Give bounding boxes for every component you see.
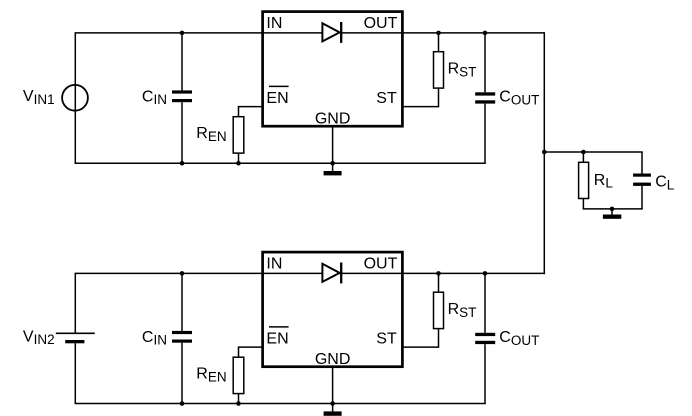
wire: RST bottom to ST pin: [402, 89, 439, 107]
label RL: [594, 172, 614, 191]
label CIN (top circuit): [142, 88, 167, 107]
resistor RST (top circuit): [434, 52, 444, 88]
wire: VIN2 left vertical bottom branch: [74, 343, 76, 403]
label RST (top circuit): [448, 61, 477, 80]
pin label IN (U2): [266, 256, 282, 273]
pin label EN (U2): [266, 330, 288, 347]
label CIN (bottom circuit): [142, 329, 167, 348]
node: RST top junction (bottom circuit): [436, 271, 441, 276]
node: CIN bottom junction: [180, 161, 185, 166]
svg-text:EN: EN: [266, 90, 288, 107]
pin label OUT (U2): [364, 256, 398, 273]
pin label EN (U1): [266, 90, 288, 107]
pin label OUT (U1): [364, 15, 398, 32]
capacitor CIN (bottom circuit): [172, 273, 192, 403]
ground symbol (bottom circuit): [324, 404, 342, 416]
wire: REN bottom to ground rail (bottom circuit): [238, 394, 240, 404]
svg-text:EN: EN: [266, 330, 288, 347]
diode D1 inside U1: [322, 22, 341, 43]
pin label GND (U1): [315, 111, 351, 128]
resistor REN (top circuit): [233, 117, 244, 153]
node: load tap junction: [542, 150, 547, 155]
label VIN2: [23, 328, 55, 347]
capacitor COUT (bottom circuit): [475, 273, 495, 403]
pin label IN (U1): [266, 15, 282, 32]
battery VIN2: [56, 333, 95, 343]
node: CIN bottom junction (bottom circuit): [180, 401, 185, 406]
svg-text:GND: GND: [315, 351, 351, 368]
pin label EN overline (U2): [269, 326, 289, 328]
resistor REN (bottom circuit): [233, 357, 244, 393]
ground symbol (top circuit): [324, 163, 342, 175]
svg-text:IN: IN: [266, 256, 282, 273]
node: RST top junction: [436, 31, 441, 36]
node: REN bottom junction: [236, 161, 241, 166]
node: COUT top junction: [483, 31, 488, 36]
wire: top ground rail (VIN1 to COUT bottom): [75, 162, 486, 164]
svg-text:IN: IN: [266, 15, 282, 32]
capacitor COUT (top circuit): [475, 33, 495, 163]
capacitor CIN (top circuit): [172, 33, 192, 163]
wire: bottom ground rail (VIN2 to COUT bottom): [75, 403, 486, 405]
label CL: [655, 173, 675, 192]
node: CIN top junction (bottom circuit): [180, 271, 185, 276]
node: COUT top junction (bottom circuit): [483, 271, 488, 276]
wire: EN pin to REN (bottom circuit): [239, 347, 263, 357]
wire: diode cathode to OUT rail (node OUT2): [341, 272, 545, 274]
ground symbol (load): [603, 209, 621, 219]
node: REN bottom junction (bottom circuit): [236, 401, 241, 406]
op-amp U1: ideal diode controller IC (top): [263, 12, 403, 127]
wire: RST top branch (bottom circuit): [438, 273, 440, 291]
wire: load top rail: [544, 151, 642, 153]
wire: VIN2 left vertical top branch: [74, 273, 76, 333]
label RST (bottom circuit): [448, 301, 477, 320]
wire: EN pin to REN (top circuit): [239, 107, 263, 117]
wire: VIN1 left vertical branch: [74, 33, 76, 163]
svg-text:GND: GND: [315, 111, 351, 128]
wire: REN bottom to ground rail: [238, 153, 240, 163]
node: GND junction (top circuit): [330, 161, 335, 166]
pin label ST (U1): [376, 90, 397, 107]
wire: GND pin of U1 to ground rail: [332, 127, 334, 164]
resistor RST (bottom circuit): [434, 292, 444, 328]
op-amp U2: ideal diode controller IC (bottom): [263, 252, 403, 367]
label REN (top circuit): [196, 125, 226, 144]
capacitor CL: [633, 152, 651, 209]
label REN (bottom circuit): [196, 365, 226, 384]
wire: diode cathode to OUT rail (node OUT1): [341, 32, 545, 34]
wire: GND pin of U2 to ground rail: [332, 367, 334, 403]
resistor RL: [579, 152, 589, 209]
svg-text:OUT: OUT: [364, 256, 398, 273]
pin label EN overline (U1): [269, 85, 289, 87]
wire: shared OUT vertical bus: [543, 33, 545, 274]
svg-text:ST: ST: [376, 331, 397, 348]
diode D2 inside U2: [322, 263, 341, 284]
label COUT (bottom circuit): [499, 329, 539, 348]
wire: VIN1 top rail to IC IN (node IN1): [75, 32, 323, 34]
wire: RST top branch: [438, 33, 440, 51]
svg-text:OUT: OUT: [364, 15, 398, 32]
label COUT (top circuit): [499, 88, 539, 107]
node: CIN top junction: [180, 31, 185, 36]
node: GND junction (bottom circuit): [330, 401, 335, 406]
wire: RST bottom to ST pin (bottom circuit): [402, 329, 439, 347]
node: RL top junction: [581, 150, 586, 155]
voltage source VIN1: [62, 85, 88, 111]
wire: load bottom rail: [583, 208, 643, 210]
wire: VIN2 top rail to IC IN (node IN2): [75, 272, 324, 274]
pin label GND (U2): [315, 351, 351, 368]
label VIN1: [23, 88, 55, 107]
svg-text:ST: ST: [376, 90, 397, 107]
node: load ground junction: [610, 207, 615, 212]
pin label ST (U2): [376, 331, 397, 348]
